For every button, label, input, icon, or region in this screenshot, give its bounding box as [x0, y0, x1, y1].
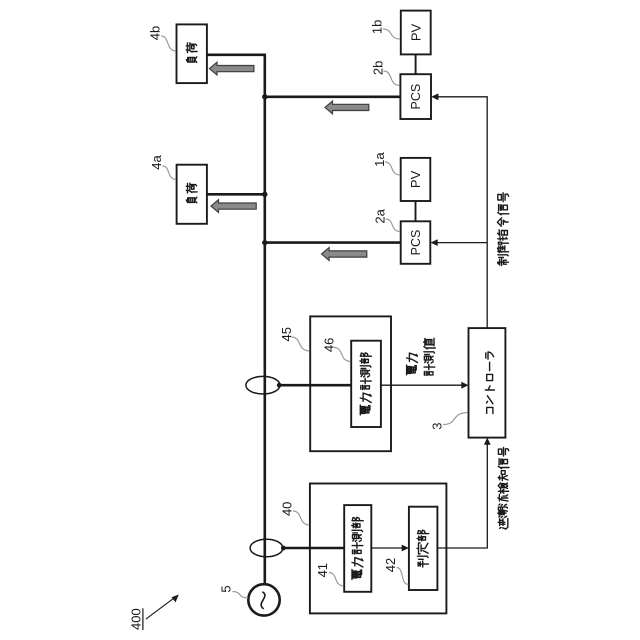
svg-text:400: 400 [128, 608, 143, 630]
AC source sine symbol [261, 592, 265, 609]
leader 1b [383, 29, 400, 39]
power meter unit 45 box [310, 316, 391, 451]
svg-text:4b: 4b [147, 26, 162, 40]
text 電力計測部 in 41 [352, 517, 364, 579]
svg-text:42: 42 [383, 558, 398, 572]
arrowhead into controller left [461, 382, 468, 389]
wire 42 to controller bottom [437, 444, 487, 548]
svg-text:1a: 1a [372, 152, 387, 167]
junction at PCS-2a tap [262, 240, 267, 245]
svg-text:46: 46 [322, 338, 337, 352]
wire 41 to 42 [371, 547, 403, 549]
power flow arrow at load 4b [210, 62, 254, 75]
CT sensor ellipse upper [246, 376, 280, 394]
leader 2b [383, 71, 399, 86]
overall arrow 400 [146, 597, 175, 619]
svg-text:1b: 1b [370, 20, 385, 34]
AC source circle 5 [248, 584, 279, 615]
PV panel 1b box [401, 11, 431, 55]
wire controller to PCS-2a control branch [436, 242, 487, 244]
leader 40 [293, 511, 309, 525]
svg-text:45: 45 [279, 327, 294, 341]
svg-text:PCS: PCS [409, 84, 423, 110]
CT upper tap dot [277, 383, 282, 388]
leader 3 [443, 413, 468, 425]
arrowhead into PCS-2b [431, 93, 438, 100]
underline of 400 [142, 608, 144, 630]
svg-text:40: 40 [280, 502, 295, 516]
power flow arrow at load 4a [211, 200, 256, 213]
wire load-4a tap [207, 193, 265, 196]
CT lower tap dot [281, 546, 286, 551]
text 電力計測部 in 46 [360, 353, 372, 415]
load 4a box [177, 165, 207, 224]
leader 4b [161, 36, 176, 51]
svg-text:5: 5 [219, 585, 234, 592]
svg-text:3: 3 [430, 422, 445, 429]
label 制御指令信号 [497, 193, 508, 266]
wire PCS-2a tap [265, 241, 401, 244]
leader 41 [329, 573, 344, 587]
wire CT-45 tap [279, 384, 351, 387]
svg-text:41: 41 [315, 563, 330, 577]
leader 45 [291, 337, 309, 351]
leader 4a [163, 166, 176, 180]
wire CT-40 tap [283, 547, 344, 550]
wire controller to PCS-2b control [436, 97, 487, 328]
svg-text:2a: 2a [373, 208, 388, 223]
power measuring part 41 box [344, 505, 371, 592]
leader 5 [233, 592, 249, 599]
label 逆潮流検知信号 [498, 447, 509, 529]
judgement part 42 box [409, 507, 438, 590]
PV panel 1a box [401, 158, 431, 201]
arrowhead of 400 arrow [172, 595, 179, 603]
junction at load-4a tap [262, 192, 267, 197]
reverse-flow detector 40 box [310, 484, 447, 614]
CT sensor ellipse lower [250, 539, 283, 557]
arrowhead into 42 [402, 545, 409, 552]
junction at PCS-2b tap [262, 94, 267, 99]
arrowhead into PCS-2a [431, 239, 438, 246]
svg-text:4a: 4a [149, 155, 164, 170]
wire measurement 46 to controller [381, 384, 463, 386]
svg-text:2b: 2b [370, 61, 385, 75]
wire PV-1b to PCS-2b [415, 54, 417, 74]
wire PCS-2b tap [265, 96, 401, 99]
load 4b box [177, 24, 207, 83]
svg-text:PV: PV [408, 24, 423, 42]
controller 3 box [469, 328, 506, 438]
text 判定部 in 42 [417, 530, 429, 567]
power flow arrow at PCS 2b [325, 101, 369, 114]
leader 2a [386, 219, 400, 232]
PCS 2b box [400, 74, 431, 119]
svg-text:PCS: PCS [409, 230, 423, 256]
svg-text:PV: PV [408, 170, 423, 188]
text 負荷 in 4a [186, 183, 197, 203]
PCS 2a box [401, 221, 431, 263]
leader 46 [334, 348, 350, 362]
text 負荷 in 4b [186, 43, 197, 63]
text コントローラ in 3 [485, 352, 494, 414]
power flow arrow at PCS 2a [322, 248, 367, 261]
wire PV-1a to PCS-2a [415, 201, 417, 221]
leader 42 [397, 568, 409, 585]
power measuring part 46 box [351, 341, 381, 427]
leader 1a [385, 162, 400, 175]
arrowhead into controller bottom [484, 438, 491, 445]
label 電力計測値 [407, 338, 436, 375]
wire load-4b tap + main bus [207, 55, 265, 585]
